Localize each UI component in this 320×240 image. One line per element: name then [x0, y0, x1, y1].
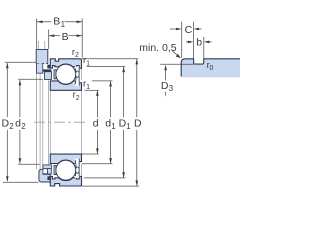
- svg-text:B: B: [62, 31, 69, 43]
- svg-text:d: d: [93, 118, 99, 130]
- svg-text:d: d: [15, 118, 21, 130]
- svg-text:2: 2: [9, 122, 14, 131]
- svg-text:1: 1: [111, 122, 116, 131]
- svg-text:0: 0: [210, 65, 214, 72]
- svg-text:2: 2: [76, 95, 80, 102]
- svg-text:2: 2: [21, 122, 26, 131]
- svg-text:1: 1: [86, 84, 90, 91]
- svg-text:C: C: [185, 24, 193, 36]
- svg-text:D: D: [134, 118, 142, 130]
- svg-text:b: b: [196, 37, 202, 49]
- svg-text:B: B: [53, 16, 60, 28]
- svg-text:3: 3: [169, 84, 174, 93]
- svg-text:2: 2: [75, 52, 79, 59]
- svg-text:1: 1: [61, 20, 66, 29]
- svg-text:min. 0,5: min. 0,5: [139, 42, 177, 54]
- svg-text:1: 1: [126, 122, 131, 131]
- svg-text:1: 1: [86, 60, 90, 67]
